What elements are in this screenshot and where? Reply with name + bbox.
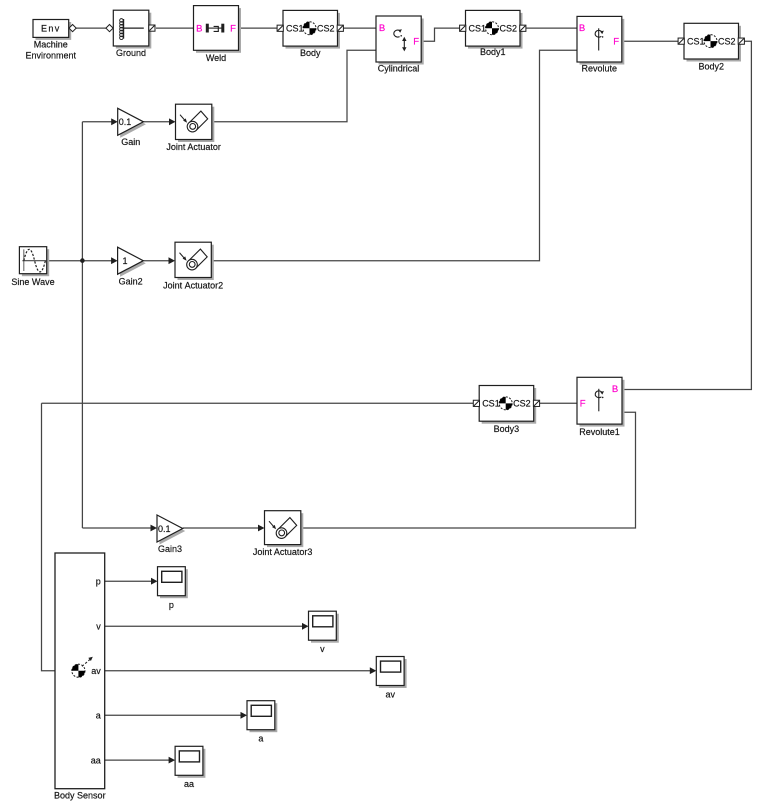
svg-text:Weld: Weld [206,53,226,63]
wire trunk to Gain3 [82,527,151,529]
svg-text:Gain3: Gain3 [158,544,182,554]
svg-text:B: B [612,384,618,395]
arrowhead into Scope p [151,578,158,585]
wire Joint Actuator3 to Revolute1 actuator port [301,412,636,528]
svg-text:aa: aa [91,755,101,765]
wire Ground to Weld B [156,27,194,29]
arrowhead into Gain2 [111,257,118,264]
wire trunk from Gain row down to Gain3 row [81,122,83,528]
diamond connector at Machine Environment output [69,25,76,32]
wire Body Sensor p to Scope p [105,580,153,582]
svg-text:Joint Actuator2: Joint Actuator2 [163,280,223,290]
svg-text:av: av [91,666,101,676]
svg-text:CS2: CS2 [718,36,736,46]
block Cylindrical [376,16,424,65]
svg-text:Env: Env [41,23,61,33]
svg-text:CS1: CS1 [482,399,500,409]
wire feedback to Body3 CS1 [42,402,478,404]
wire Body Sensor av to Scope av [105,670,372,672]
wire Gain3 to Joint Actuator3 [183,527,260,529]
icon Sine Wave [22,249,46,272]
arrowhead into Scope av [370,667,377,674]
wire Joint Actuator to Cylindrical actuator port [212,50,376,122]
icon Ground hatched wall [120,19,144,40]
wire Gain to Joint Actuator [143,121,170,123]
wire Body CS2 to Cylindrical B [340,27,376,29]
block Machine Environment [33,20,71,40]
svg-text:F: F [613,37,619,48]
icon Revolute1 joint [595,389,604,412]
icon Revolute joint [595,28,604,50]
svg-text:Cylindrical: Cylindrical [378,64,420,74]
arrowhead into Gain3 [151,525,158,532]
svg-text:CS1: CS1 [687,36,705,46]
wire Body2 CS2 to Revolute1 B [622,41,751,389]
junction dot at trunk branch [80,258,85,263]
svg-text:p: p [96,577,101,587]
block Body [283,10,340,48]
block Body Sensor [55,553,105,789]
arrowhead into Scope v [302,623,309,630]
arrowhead into Joint Actuator [169,118,176,125]
block Scope v [309,611,339,643]
block Joint Actuator [176,104,215,142]
block Ground [113,10,151,48]
arrowhead into Gain [111,118,118,125]
svg-text:CS1: CS1 [286,24,304,34]
svg-text:CS2: CS2 [499,24,517,34]
block Revolute [577,16,624,64]
svg-text:CS2: CS2 [317,24,335,34]
svg-text:Gain2: Gain2 [119,277,143,287]
icon Weld [206,24,225,33]
svg-text:1: 1 [123,256,128,266]
wire Body1 CS2 to Revolute B [523,27,577,29]
block Joint Actuator3 [265,511,304,547]
svg-text:F: F [230,23,236,34]
svg-text:aa: aa [184,779,194,789]
svg-text:Sine Wave: Sine Wave [11,277,54,287]
block Revolute1 [577,377,625,426]
svg-text:CS2: CS2 [513,399,531,409]
svg-text:v: v [320,644,325,654]
block Gain (0.1) [118,108,146,138]
svg-text:Revolute1: Revolute1 [579,427,620,437]
wire Body3 CS2 to Revolute1 F [536,402,577,404]
icon Cylindrical joint [394,29,407,51]
wire Body Sensor aa to Scope aa [105,759,170,761]
wire Gain2 to Joint Actuator2 [143,260,170,262]
wire Body Sensor v to Scope v [105,625,304,627]
port CS2 of Body1 [520,25,526,31]
svg-text:B: B [579,23,585,34]
block Gain2 (1) [118,247,146,277]
svg-text:Environment: Environment [26,51,77,61]
svg-text:B: B [196,23,202,34]
port CS2 of Body2 [738,38,744,44]
wire Sine Wave to Gain2 [47,260,113,262]
block Gain3 (0.1) [157,515,185,545]
block Weld [194,6,242,53]
svg-text:Ground: Ground [116,48,146,58]
svg-text:Joint Actuator: Joint Actuator [166,142,221,152]
icon Body Sensor CG circle with arrow [72,657,93,678]
svg-text:CS1: CS1 [469,24,487,34]
svg-text:F: F [580,398,586,409]
svg-text:Body: Body [300,48,321,58]
svg-text:B: B [379,23,385,34]
svg-text:v: v [96,622,101,632]
svg-text:Body Sensor: Body Sensor [54,790,106,800]
wire Body Sensor a to Scope a [105,714,242,716]
wire Weld F to Body CS1 [239,27,282,29]
block Scope aa [175,746,205,778]
svg-text:0.1: 0.1 [119,117,132,127]
svg-text:Joint Actuator3: Joint Actuator3 [253,547,313,557]
port CS1 of Body1 [460,25,466,31]
wire Joint Actuator2 to Revolute actuator port [212,50,577,260]
svg-text:Machine: Machine [34,40,68,50]
svg-text:Body3: Body3 [494,424,520,434]
svg-text:Body1: Body1 [480,47,506,57]
svg-text:0.1: 0.1 [158,524,171,534]
svg-text:a: a [96,711,101,721]
svg-text:av: av [385,689,395,699]
block Joint Actuator2 [175,242,214,280]
arrowhead into Joint Actuator3 [258,525,265,532]
arrowhead into Joint Actuator2 [169,257,176,264]
block Scope a [247,701,277,733]
port CS2 of Body [337,25,343,31]
block Scope av [376,657,406,689]
block Sine Wave [19,247,49,277]
svg-text:Gain: Gain [121,137,140,147]
port CS1 of Body2 [678,38,684,44]
wire feedback down to Body Sensor [42,403,56,670]
svg-text:p: p [169,600,174,610]
svg-text:Body2: Body2 [698,61,724,71]
diamond connector at Ground input [106,25,113,32]
block Body2 [684,23,741,61]
arrowhead into Scope a [241,712,248,719]
wire trunk to Gain input [82,121,112,123]
port CS1 of Body [277,25,283,31]
port CS1 of Body3 [473,400,479,406]
port CS2 of Body3 [533,400,539,406]
block Body3 [479,386,536,424]
svg-text:a: a [258,733,263,743]
wire Cylindrical F to Body1 CS1 [421,28,463,41]
arrowhead into Scope aa [169,757,176,764]
block Body1 [466,10,523,48]
svg-text:F: F [413,37,419,48]
port of Ground [149,25,155,31]
svg-text:Revolute: Revolute [582,64,618,74]
wire Machine Environment to Ground [69,27,114,29]
wire Revolute F to Body2 CS1 [622,40,682,42]
block Scope p [158,567,188,599]
